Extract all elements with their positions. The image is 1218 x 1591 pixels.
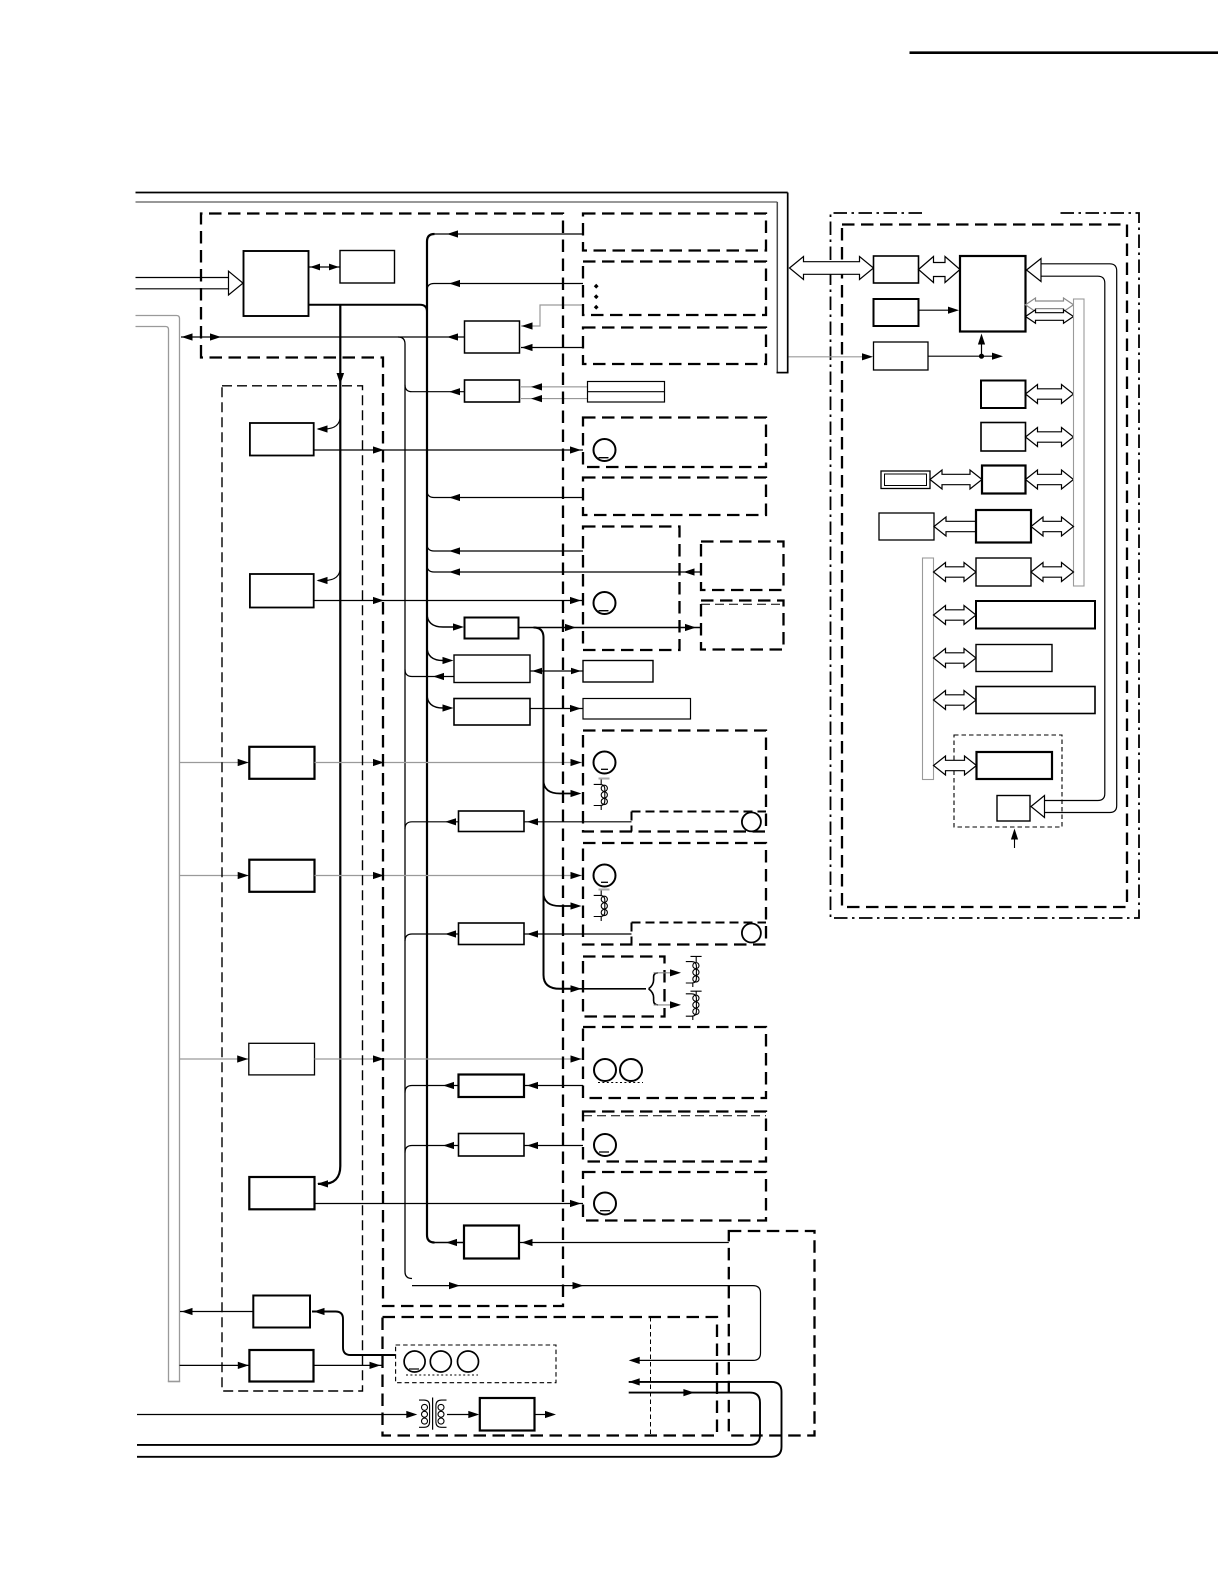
wire CPU output merging into rail x427 (y304.8) [309, 305, 428, 312]
gray bus outer L (left side) [136, 316, 180, 1382]
dashed sub-box10 top edge [632, 922, 767, 924]
arrow west on y1145.5 near rail [443, 1142, 454, 1149]
B9 block [465, 618, 519, 639]
wire B12 to B13 (y708.5) [530, 708, 583, 710]
hollow arrow R4-bus [1026, 385, 1074, 404]
arrow west tip at gray bus y337 [182, 333, 193, 340]
dashed region A+M (L-shaped, tuner/front-end group) [201, 214, 563, 1307]
arrow into box11 y988.8 [571, 985, 582, 992]
R8 block [976, 510, 1031, 543]
wire L4 to box10 (y875.5) [315, 875, 584, 877]
dashed sub-box9 top edge [632, 811, 767, 813]
open arrowhead into R2 right [1027, 259, 1042, 282]
arrow east y600.5 (mid) [373, 597, 384, 604]
wire top outer horizontal bus [136, 192, 788, 194]
dashed sub-box10 left edge [631, 923, 633, 945]
wire x341 branch to L2 (y580.5) [318, 567, 340, 581]
wire transformer to B19 [447, 1414, 470, 1416]
L4 block [249, 860, 314, 892]
R2 block (main IC) [960, 256, 1026, 332]
dashed box3 [583, 328, 766, 365]
inner dashed enclosure (right section) [842, 225, 1127, 908]
wire sub-box10 to B15 to rail x405 (y934) [405, 934, 632, 941]
vertical wire pair from R2-right going down (outer) [1041, 264, 1117, 813]
arrow west on y676.5 [433, 673, 444, 680]
arrow up into R2 bottom [978, 334, 985, 345]
wire CPU-S1 bidirectional [309, 266, 341, 268]
arrow west on y572 wire near box6 [684, 568, 695, 575]
arrow into B21 left [238, 1362, 249, 1369]
arrow up into box G [1011, 829, 1018, 840]
arrow west on y391.7 [449, 388, 460, 395]
R7 block [874, 342, 929, 370]
R1 block [874, 256, 919, 283]
wire hollow input arrow shaft lower [136, 288, 230, 290]
tick under box6 circle [599, 610, 609, 612]
hollow arrow R1-R2 [919, 257, 961, 283]
wire box13 to B17 to rail x405 (y1145.5) [405, 1146, 583, 1153]
open arrowhead into R14 right [1031, 796, 1045, 818]
arrow west into gray bus y1311.5 [182, 1308, 193, 1315]
dashed 3-circle box in F [396, 1345, 556, 1383]
arrow into B8 right (y326) [522, 322, 533, 329]
wire hollow input arrow shaft upper [136, 277, 230, 279]
R11 block [976, 645, 1052, 672]
R12 block [976, 687, 1095, 714]
wire R7 output east [928, 355, 993, 357]
R5 block [981, 423, 1026, 452]
arrow B19 output terminal [545, 1411, 556, 1418]
antenna coil 2 [686, 991, 702, 1020]
dashed box12 [583, 1027, 766, 1098]
arrow east on loop B [683, 1389, 694, 1396]
arrow east y875.5 (mid) [373, 872, 384, 879]
ellipsis dots in box2 [594, 284, 599, 289]
arrow west on y821.8 near rail [445, 818, 456, 825]
wire rail x427 bottom to B18 (y1242.5) [434, 1242, 464, 1244]
B8 block [465, 321, 520, 353]
B10 block [454, 655, 530, 683]
arrow into B8 right (y347.5) [522, 344, 533, 351]
arrow east y450 into box4 [570, 446, 581, 453]
wire gray zig box2 to B8 [521, 305, 583, 326]
arrow down on x341 above box C [337, 373, 345, 384]
arrow fork lower into coil2 [670, 1001, 681, 1008]
hollow arrow R2-bus lower [1026, 310, 1074, 324]
tick under box13 circle [599, 1151, 609, 1153]
arrow east terminal on R7 output [992, 353, 1003, 360]
arrow into box10 y906 [571, 902, 582, 909]
B18 block [464, 1226, 519, 1259]
arrow east y1059 into box12 [571, 1055, 582, 1062]
dashed box2 [583, 262, 766, 316]
bus bar vertical right (outer) [787, 193, 789, 374]
wire fork lower branch [654, 1004, 672, 1006]
rail x405 vertical [398, 337, 412, 1279]
arrow east on y337 [210, 333, 221, 340]
arrow west on y283.5 wire [449, 280, 460, 287]
wire B10 out to rail x405 (y676.5) [405, 670, 454, 677]
wire fork inside box11 [572, 973, 658, 1005]
wire y337 gray-bus to B8 link [181, 336, 465, 338]
R3 block [874, 299, 919, 326]
circle M1 in box12 [594, 1059, 616, 1081]
wire L1 to box4 (y450) [314, 449, 583, 451]
wire bottom input line to transformer [137, 1414, 408, 1416]
circle M in box4 [594, 439, 616, 461]
wire B10-B11 bidirectional (y671) [530, 670, 583, 672]
arrow into L4 [238, 872, 249, 879]
arrow east y627.5 into box8 [685, 624, 696, 631]
dashed box4 [583, 418, 766, 468]
rail x427 vertical (bold) [427, 234, 435, 1243]
arrow fork upper into coil1 [670, 969, 681, 976]
R6 block [982, 466, 1026, 494]
circle M in box6 [594, 592, 616, 614]
B17 block [459, 1134, 525, 1157]
arrow west on y934 near rail [445, 930, 456, 937]
arrow west on y497.5 wire [449, 494, 460, 501]
arrow east y1059 (mid) [373, 1055, 384, 1062]
arrow into B15 right [527, 930, 538, 937]
arrow into B17 right [527, 1142, 538, 1149]
wire rail x405 bottom east line y1285.6 to corner x760.5 [412, 1286, 761, 1361]
hollow arrow R5-bus [1026, 428, 1074, 447]
arrow east on y1285.6 (west) [449, 1282, 460, 1289]
rail x341 from CPU down to L6 [318, 306, 340, 1184]
S1 block (crystal) [340, 251, 395, 284]
dashed box7 [701, 542, 784, 591]
tick under circle C1 [409, 1368, 419, 1370]
gray bus inner L (left side) [136, 327, 169, 1382]
B11 block [583, 661, 653, 683]
B14 block [459, 811, 525, 832]
arrow east y762.5 (mid) [373, 759, 384, 766]
arrow into L3 [238, 759, 249, 766]
transformer T1 secondary winding [436, 1400, 447, 1427]
arrow east y1203.5 into box14 [570, 1200, 581, 1207]
dashed box11 [583, 957, 665, 1017]
coil in box9 [594, 779, 605, 810]
arrow into R2 left [948, 307, 959, 314]
circle M2 in box12 [620, 1059, 642, 1081]
arrow into B20 right [314, 1308, 325, 1315]
arrow west terminal on y1360.4 [629, 1357, 640, 1364]
arrow west into CPU [310, 264, 320, 271]
arrow into L6 right [317, 1180, 328, 1187]
circle C1 in 3-circle box [404, 1351, 425, 1372]
antenna coil 1 loops [693, 963, 699, 969]
hollow arrow bus2-R9 [934, 563, 977, 582]
wire B21 east to box F edge [314, 1364, 382, 1366]
dashed region F (bottom power group) [383, 1317, 718, 1436]
wire B18 to box E (y1242.5) [519, 1242, 729, 1244]
R10 block [976, 601, 1095, 629]
hollow arrow R2-bus upper (gray) [1026, 298, 1074, 312]
coil in box9 loops [601, 785, 607, 791]
junction dot on R7 output [979, 354, 984, 359]
wire gray bus to L5 (y1059) [180, 1058, 249, 1060]
wire box3 to B8 (y347.5) [521, 347, 583, 349]
arrow into B18 left [446, 1239, 457, 1246]
arrow west on y234 wire [447, 230, 458, 237]
wire rail x427 to B10 (y660.5) [427, 647, 446, 661]
R7b block [879, 513, 934, 540]
B12 block [454, 699, 530, 726]
arrow into L5 [237, 1055, 248, 1062]
hollow arrow R8-bus [1031, 517, 1074, 536]
arrow west on y551 wire [449, 547, 460, 554]
arrow into B9 [453, 623, 464, 630]
arrow into B8b upper [531, 383, 542, 390]
arrow west on y1085.5 near rail [443, 1082, 454, 1089]
L1 block [250, 423, 314, 456]
circle M in sub-box10 [742, 924, 761, 943]
vertical wire pair from R2-right going down (inner) [1041, 276, 1105, 800]
wire 3-circle box to B20 via x343 [312, 1312, 396, 1356]
coil in box10 loops [601, 896, 607, 902]
dotted underline in box12 [598, 1082, 643, 1084]
arrow east y450 (mid) [373, 446, 384, 453]
wire box6 to rail x427 (y551) [427, 544, 583, 551]
wire gray bus to L4 (y875.5) [180, 875, 250, 877]
CPU block U1 [244, 251, 309, 316]
L2 block [250, 574, 314, 608]
dashed region F divider [650, 1317, 652, 1436]
dashed box14 [583, 1172, 766, 1221]
wire R3 to R2 [919, 309, 951, 311]
dashed box13 inner top line [583, 1115, 766, 1117]
wire box2 to rail x427 (y283.5) [427, 284, 583, 291]
dashed box1 (top middle) [583, 214, 766, 251]
wire box7 through box6 to rail x427 (y572) [427, 565, 701, 572]
circle M in box13 [594, 1134, 616, 1156]
transformer T1 primary loops [422, 1404, 428, 1410]
tick under box4 circle [599, 457, 609, 459]
dashed region C (left column group) [222, 386, 363, 1391]
arrow into B16 right [527, 1082, 538, 1089]
arrow east on y1285.6 (mid) [573, 1282, 584, 1289]
wire sub-box9 to B14 to rail x405 (y821.8) [405, 822, 632, 829]
dashed box5 [583, 478, 766, 516]
wire box1 to rail x427 (y234) [434, 233, 583, 235]
arrow east y875.5 into box10 [571, 872, 582, 879]
wire L5 to box12 (y1059) [315, 1058, 584, 1060]
arrow into B12 [443, 704, 454, 711]
dashed box8 [701, 601, 784, 650]
hollow arrow bus2-R11 [934, 649, 977, 668]
B15 block [459, 923, 525, 945]
dashed box G (right bottom group) [954, 735, 1062, 827]
hollow arrow R9-bus1 [1031, 563, 1074, 582]
wire x543.5 branch into box9 (y793.5) [544, 780, 575, 794]
arrow into B14 right [527, 818, 538, 825]
bus bar vertical right (inner, gray) [776, 202, 778, 373]
arrow into L1 right [317, 425, 328, 432]
dashed box9 [583, 731, 766, 832]
dashed box10 [583, 843, 766, 945]
dashed region E (bottom right group) [729, 1231, 815, 1436]
wire gray bus to L3 (y762.5) [180, 762, 250, 764]
arrow east into B13 [570, 705, 581, 712]
circle C3 in 3-circle box [458, 1351, 479, 1372]
wire branch up to R2 bottom [981, 338, 983, 356]
B20 block [253, 1296, 310, 1328]
header rule top right [910, 51, 1218, 54]
B13 block [583, 699, 691, 720]
arrow west on loop A [629, 1378, 640, 1385]
antenna coil 1 [686, 956, 702, 987]
wire B19 output east [535, 1414, 547, 1416]
B16 block [459, 1075, 525, 1098]
longrect connector block [588, 382, 665, 403]
wire R7 input (gray from bus bar) [789, 356, 865, 358]
wire box5 to rail x427 (y497.5) [427, 491, 583, 498]
wire fork upper branch [654, 972, 672, 974]
longrect midline [588, 391, 665, 393]
circle C2 in 3-circle box [430, 1351, 451, 1372]
wire L2 to box6 (y600.5) [314, 600, 583, 602]
wire x341 branch to L1 (y429) [318, 416, 340, 430]
L6 block [249, 1177, 314, 1209]
arrow west on y572 wire near rail [449, 568, 460, 575]
R13 block [977, 752, 1053, 779]
arrow into L2 right [317, 577, 328, 584]
arrow east y627.5 into box6 [565, 624, 576, 631]
coil in box10 [594, 890, 605, 921]
wire rail x427 to B9 (y627) [427, 613, 456, 627]
wire rail x427 to B12 (y708) [427, 694, 446, 708]
dashed box13 [583, 1112, 766, 1162]
L5 block [249, 1043, 315, 1075]
wire top inner horizontal bus (gray) [136, 201, 778, 203]
transformer T1 secondary loops [438, 1404, 444, 1410]
transformer T1 core [432, 1398, 434, 1430]
wire longrect to B8b upper (y386.9) [521, 386, 588, 388]
display block inner [885, 474, 927, 486]
open arrowhead into CPU [229, 271, 244, 295]
arrow west into B10 [532, 668, 542, 675]
arrow east at box F edge [370, 1362, 381, 1369]
L3 block [249, 747, 314, 779]
arrow into box9 y793.5 [571, 790, 582, 797]
hollow arrow bus-bar to R1 [790, 257, 874, 280]
coil in box9 gray tick [599, 778, 610, 780]
dotted underline under 3 circles [406, 1374, 478, 1376]
wire L3 to box9 (y762.5) [315, 762, 584, 764]
circle M in box10 [594, 865, 616, 887]
wire longrect to B8b lower (y398.6) [521, 398, 588, 400]
gray bus bottom cap [168, 1381, 180, 1383]
tick under box14 circle [600, 1210, 610, 1212]
hollow arrow R8 to R7b (west only) [934, 517, 976, 536]
R9 block [976, 558, 1031, 586]
hollow arrow display-R6 [930, 470, 982, 489]
B19 block [480, 1398, 535, 1431]
display block outer [881, 471, 930, 489]
wire B8b to rail x405 (y391.7) [405, 385, 465, 392]
hollow arrow bus2-R10 [934, 606, 977, 625]
hollow arrow R6-bus [1026, 470, 1074, 489]
tick under box9 circle [601, 768, 608, 770]
wire box12 to B16 to rail x405 (y1085.5) [405, 1086, 583, 1093]
tick under box10 circle [601, 881, 608, 883]
R4 block [981, 381, 1026, 409]
circle M in box14 [594, 1193, 616, 1215]
hollow arrow bus2-R12 [934, 691, 977, 710]
bus bar bottom cap [777, 372, 789, 374]
wire x543.5 branch into box10 (y906) [544, 893, 575, 907]
B8b block [465, 380, 520, 402]
wire bottom loop A (outer): left-pointing line y1381.9 looping from y1456.8 [137, 1382, 782, 1457]
hollow arrow bus2-R13 [934, 756, 977, 775]
arrow east y762.5 into box9 [571, 759, 582, 766]
circle M in sub-box9 [742, 812, 761, 831]
arrow west on y337 near B8 [447, 333, 458, 340]
bus2 vertical bar (left) [923, 558, 934, 780]
rail x543.5 bold from B9 line [534, 628, 575, 989]
arrow west into B18 right side [522, 1239, 533, 1246]
arrow into transformer [406, 1411, 417, 1418]
arrow into B19 [468, 1411, 479, 1418]
arrow into R7 [862, 353, 873, 360]
B21 block [249, 1350, 313, 1382]
bus1 vertical bar (right) [1074, 299, 1085, 586]
arrow east into S1 [329, 264, 339, 271]
circle M in box9 [594, 752, 616, 774]
arrow east y600.5 into box6 [570, 597, 581, 604]
wire B9 east to box6/box8 (y627.5) [519, 627, 702, 629]
arrow into B10 [443, 657, 454, 664]
dashed box8 inner top line [701, 603, 784, 605]
transformer T1 primary winding [419, 1400, 430, 1427]
coil in box10 gray tick [599, 889, 610, 891]
arrow into B8b lower [531, 395, 542, 402]
arrow east into B11 [571, 668, 581, 675]
wire B20 to gray bus (y1311.5) [180, 1311, 253, 1313]
wire L6 to box14 (y1203.5) [315, 1203, 584, 1205]
wire up-arrow below box G [1014, 833, 1016, 848]
dashed sub-box9 left edge [631, 812, 633, 832]
dashed box6 [583, 527, 680, 651]
antenna coil 2 loops [693, 995, 699, 1001]
dash-dot outer enclosure left/bottom/right [831, 213, 1140, 918]
wire gray bus to B21 (y1365.4) [180, 1364, 250, 1366]
R14 block [997, 796, 1030, 822]
wire bottom loop B (inner): right-going line y1392.6 looping down to y1444.9 [137, 1393, 760, 1445]
